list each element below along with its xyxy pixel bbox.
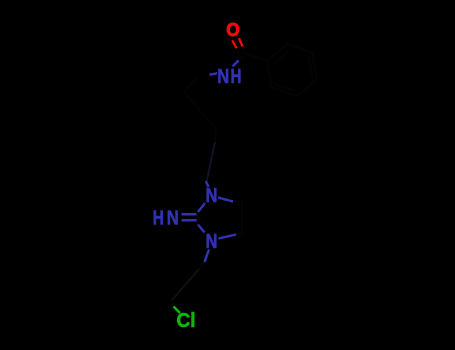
bond: N3 to chloroalkyl C (blue half) xyxy=(205,250,210,263)
wire: dark half of C=O double bond near carbonyl C xyxy=(237,47,245,53)
wire: C2 dark corner bits xyxy=(197,212,198,224)
bond: C-Cl (green half) xyxy=(174,307,181,314)
wire: dark half of N-C bonds near carbonyl C xyxy=(239,56,243,61)
svg-text:Cl: Cl xyxy=(177,309,196,332)
wire: chain from anilide C down to ring N1 (dark) xyxy=(184,77,216,142)
svg-text:N: N xyxy=(206,230,218,253)
svg-text:N: N xyxy=(206,184,218,207)
bond: N1 to C2 (blue half) xyxy=(198,203,205,212)
bond: amide N to anilide C (blue half) xyxy=(210,73,218,74)
svg-text:N: N xyxy=(167,207,179,230)
bond: N3 to C2 (blue half) xyxy=(198,225,236,263)
svg-text:H: H xyxy=(231,65,242,88)
bond: C2=NH imine double bond (blue half) xyxy=(182,214,197,220)
bond: chain C to ring N1 (blue half) xyxy=(198,181,233,212)
wire: carbonyl C to ipso (dark C-C bond) xyxy=(184,44,317,269)
node: benzoyl phenyl ring (dark) xyxy=(267,44,317,96)
bond: N1 to C5 (blue half) xyxy=(218,198,233,202)
svg-text:N: N xyxy=(217,65,229,88)
wire: chloroalkyl chain diagonal (dark) xyxy=(172,269,199,300)
svg-text:O: O xyxy=(226,19,240,40)
svg-text:H: H xyxy=(153,207,164,230)
bond: N3 to C4 (blue half) xyxy=(219,235,237,239)
bond: amide N to carbonyl C (blue half) xyxy=(210,61,239,75)
bond: C=O double bond red half xyxy=(232,38,242,48)
wire: pentagon dark edges C5-C4 xyxy=(233,202,242,235)
bond: ethylene C to ring N1 (dark navy half) xyxy=(206,142,215,183)
wire: chain N3 to chloro carbon (dark) xyxy=(200,262,205,269)
wire: dark half of C-Cl bond xyxy=(172,301,175,307)
